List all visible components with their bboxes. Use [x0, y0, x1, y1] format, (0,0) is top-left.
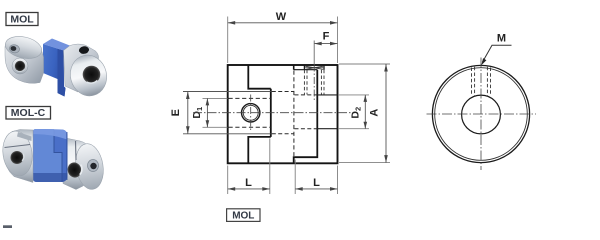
F dimension line — [314, 43, 337, 45]
left hub screw boss ring — [12, 58, 28, 74]
right hub face ellipse — [73, 142, 107, 192]
svg-text:A: A — [369, 109, 381, 117]
set screw body — [303, 66, 305, 70]
left hub face ellipse — [3, 33, 44, 62]
left hub face slit — [5, 145, 31, 148]
A dimension line — [385, 64, 387, 163]
L right extension lines — [294, 160, 296, 195]
chamfer ring — [435, 68, 528, 161]
right hub face bore dark — [90, 163, 96, 169]
blue spacer right shade — [58, 49, 66, 97]
svg-text:E: E — [170, 109, 182, 116]
circle vertical centerline — [250, 95, 252, 132]
body outline — [228, 65, 338, 163]
set screw circle left hub — [242, 104, 260, 122]
right hub face — [66, 51, 111, 99]
svg-text:F: F — [323, 31, 330, 43]
right hub clamp hole — [66, 161, 83, 179]
set screw tapped hole hidden lines — [303, 70, 305, 95]
outer circle — [432, 65, 529, 162]
top notch at disc right — [293, 65, 295, 70]
E dimension line — [187, 92, 189, 134]
slot top edge — [294, 69, 318, 71]
blue spacer top band — [43, 39, 71, 51]
left hub set screw hole — [15, 61, 25, 71]
L left dimension line — [228, 188, 270, 190]
left hub step notch — [17, 132, 32, 141]
right hub set screw hole — [78, 45, 89, 55]
disc left edge vertical — [270, 89, 272, 137]
D1 bore hidden top — [229, 97, 271, 99]
label box MOL (bottom) — [227, 209, 260, 222]
svg-text:M: M — [497, 33, 506, 45]
right hub slit — [75, 141, 78, 160]
hidden slot line top right — [272, 91, 294, 93]
W extension line left — [227, 17, 229, 64]
main centerline — [193, 112, 355, 114]
vertical centerline — [480, 58, 482, 171]
blue spacer front face — [43, 44, 66, 97]
hidden slot line bottom right — [272, 133, 294, 135]
blue disc MOL-C — [32, 129, 68, 182]
hidden disc right edge — [293, 71, 295, 157]
D2 bore hidden top — [295, 94, 318, 96]
W dimension line — [228, 22, 338, 24]
left hub face bore ring — [9, 44, 21, 54]
right hub bore — [83, 66, 101, 84]
left hub cylinder body — [4, 130, 33, 183]
bottom-left cropped label stub — [3, 225, 12, 228]
right hub slot outline — [294, 70, 318, 164]
M leader line — [483, 45, 512, 62]
bore circle — [462, 95, 501, 134]
E slot line top — [183, 91, 271, 93]
D2 dimension line — [364, 95, 366, 129]
left hub cylinder side — [5, 41, 44, 83]
left hub face bore dark — [10, 46, 17, 52]
svg-text:MOL: MOL — [10, 13, 34, 25]
svg-text:MOL: MOL — [232, 211, 254, 222]
blue disc light half — [32, 129, 62, 182]
photo MOL coupling — [3, 33, 111, 100]
left hub slot step bottom — [247, 137, 270, 163]
svg-text:MOL-C: MOL-C — [11, 107, 46, 119]
label box MOL (top-left) — [6, 13, 38, 26]
horizontal centerline — [427, 113, 537, 115]
blue disc edge shadows — [32, 131, 34, 180]
E slot line bottom — [183, 133, 271, 135]
left hub face ellipse — [0, 129, 35, 178]
blue disc seam — [54, 130, 62, 183]
left hub clamp hole — [11, 151, 24, 164]
photo MOL-C coupling — [0, 129, 106, 191]
blue disc bottom shade — [32, 173, 68, 182]
svg-text:L: L — [245, 177, 252, 189]
D2 bore solid bottom — [317, 128, 337, 130]
svg-text:W: W — [276, 11, 287, 23]
right hub cylinder side — [64, 44, 99, 92]
left hub slot step top — [248, 65, 270, 89]
right hub face bore ring — [88, 160, 99, 172]
D1 dimension line — [206, 98, 208, 127]
D2 bore solid top — [317, 94, 337, 96]
D1 extension lines — [203, 97, 228, 99]
L left extension lines — [227, 166, 229, 195]
svg-text:L: L — [313, 177, 320, 189]
D2 extension lines — [339, 94, 369, 96]
screw centerline — [313, 41, 315, 65]
right hub cylinder body — [63, 138, 92, 190]
blue disc top shade — [32, 129, 68, 140]
W extension line right — [337, 17, 339, 64]
M tapped hole hidden lines — [471, 68, 473, 96]
label box MOL-C — [6, 107, 51, 120]
set screw cross hatch — [305, 66, 323, 69]
D2 bore hidden bottom — [295, 128, 318, 130]
A extension lines — [339, 63, 390, 65]
D1 bore hidden bottom — [229, 126, 271, 128]
L right dimension line — [295, 188, 337, 190]
svg-text:D2: D2 — [350, 107, 363, 119]
